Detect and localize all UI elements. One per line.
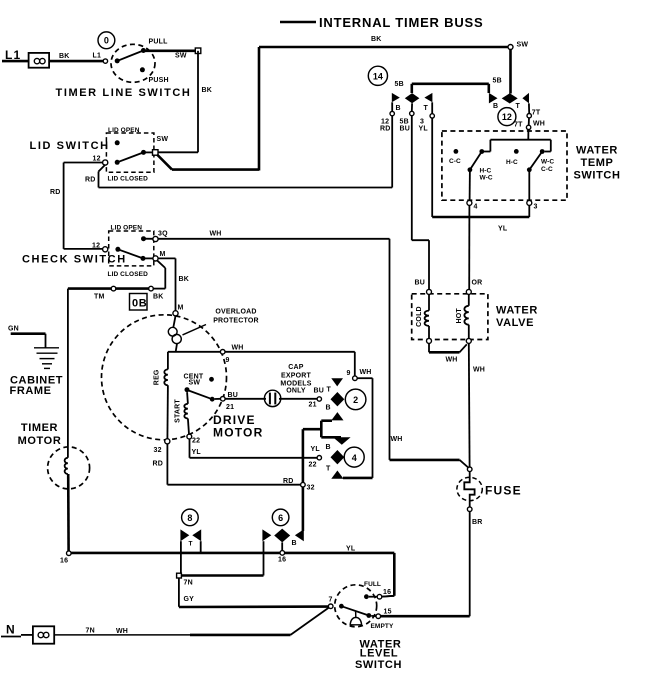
node 9 WH at timer contact 2 <box>343 369 373 478</box>
timer motor <box>18 422 90 551</box>
svg-text:3: 3 <box>534 204 538 211</box>
ground GN <box>8 326 59 369</box>
boxed label 0B <box>130 294 148 311</box>
svg-text:WATER: WATER <box>576 145 618 157</box>
wire RD motor 32 to node 32 <box>153 444 301 485</box>
svg-text:WH: WH <box>116 628 128 635</box>
svg-text:LID CLOSED: LID CLOSED <box>108 271 149 278</box>
svg-text:GN: GN <box>8 326 19 333</box>
svg-text:9: 9 <box>226 357 230 364</box>
svg-text:6: 6 <box>278 513 283 523</box>
svg-text:5B: 5B <box>395 81 404 88</box>
wire WH neutral to water level 7 <box>54 608 329 635</box>
svg-text:SW: SW <box>517 42 529 49</box>
svg-text:16: 16 <box>278 557 286 564</box>
svg-text:15: 15 <box>384 609 392 616</box>
svg-text:12: 12 <box>92 243 100 250</box>
timer contact 2 <box>309 378 366 420</box>
timer contact 4 <box>309 437 365 478</box>
node 32 <box>301 482 315 531</box>
label cabinet frame <box>10 375 64 397</box>
svg-text:7T: 7T <box>532 110 541 117</box>
wire timer motor branch <box>67 289 69 458</box>
svg-text:GY: GY <box>184 596 195 603</box>
wire WH check switch 3Q to fuse <box>158 231 468 468</box>
svg-text:WH: WH <box>446 357 458 364</box>
svg-text:B: B <box>493 103 498 110</box>
svg-text:WH: WH <box>210 231 222 238</box>
svg-text:14: 14 <box>373 71 383 81</box>
svg-text:WATER: WATER <box>496 305 538 317</box>
svg-text:21: 21 <box>309 402 317 409</box>
timer contact group 12 <box>489 84 545 130</box>
svg-text:START: START <box>175 399 182 423</box>
terminal 22 drive motor <box>187 434 201 456</box>
svg-text:B: B <box>292 540 297 547</box>
svg-text:OR: OR <box>472 280 483 287</box>
svg-text:9: 9 <box>347 370 351 377</box>
svg-text:EXPORT: EXPORT <box>281 373 312 380</box>
wire lid switch SW to timer buss <box>157 47 259 171</box>
svg-text:INTERNAL TIMER BUSS: INTERNAL TIMER BUSS <box>319 15 483 30</box>
svg-text:RD: RD <box>153 461 164 468</box>
svg-text:7: 7 <box>329 597 333 604</box>
REG winding <box>154 352 168 439</box>
svg-text:YL: YL <box>419 126 429 133</box>
svg-text:PUSH: PUSH <box>149 77 169 84</box>
svg-text:M: M <box>178 305 184 312</box>
svg-text:COLD: COLD <box>416 306 423 327</box>
node M drive motor <box>173 305 184 316</box>
svg-text:PULL: PULL <box>149 39 169 46</box>
svg-text:WH: WH <box>533 120 545 127</box>
wire WH motor 9 line <box>168 345 355 376</box>
svg-text:7N: 7N <box>86 628 95 635</box>
timer contact group 14 <box>380 84 434 133</box>
svg-text:L1: L1 <box>93 53 102 60</box>
svg-text:WH: WH <box>473 367 485 374</box>
svg-text:SW: SW <box>157 136 169 143</box>
svg-text:N: N <box>6 623 16 637</box>
svg-text:21: 21 <box>226 404 234 411</box>
svg-text:22: 22 <box>192 438 200 445</box>
svg-text:5B: 5B <box>493 78 502 85</box>
svg-text:RD: RD <box>380 126 391 133</box>
svg-text:W-C: W-C <box>541 159 554 166</box>
svg-text:LEVEL: LEVEL <box>360 647 398 659</box>
svg-text:OVERLOAD: OVERLOAD <box>215 309 256 316</box>
centrifugal switch <box>184 374 221 402</box>
svg-text:4: 4 <box>352 453 357 463</box>
svg-text:CHECK SWITCH: CHECK SWITCH <box>22 254 127 266</box>
svg-text:32: 32 <box>154 447 162 454</box>
wire TM line <box>68 286 164 300</box>
terminal 16 left <box>60 551 71 565</box>
svg-text:PROTECTOR: PROTECTOR <box>213 318 259 325</box>
svg-text:2: 2 <box>353 395 358 405</box>
svg-text:SW: SW <box>189 380 201 387</box>
START winding <box>175 392 190 434</box>
wire bracket contacts 2B 4B to node 32 <box>303 421 341 483</box>
svg-text:BK: BK <box>371 36 382 43</box>
capacitor cap export models only <box>225 364 317 407</box>
svg-text:3: 3 <box>420 119 424 126</box>
svg-text:32: 32 <box>307 485 315 492</box>
timer line switch <box>103 39 201 85</box>
svg-text:TIMER: TIMER <box>21 422 58 434</box>
svg-text:LID OPEN: LID OPEN <box>111 225 143 232</box>
svg-text:LID OPEN: LID OPEN <box>108 127 140 134</box>
svg-text:WH: WH <box>391 436 403 443</box>
svg-text:16: 16 <box>383 589 391 596</box>
wire YL water level 16 riser <box>382 595 395 598</box>
svg-text:YL: YL <box>498 226 508 233</box>
drive motor dashed circle <box>102 315 227 440</box>
svg-text:4: 4 <box>474 204 478 211</box>
wire check switch M to overload M <box>158 258 189 310</box>
terminal 7N <box>177 573 264 586</box>
svg-text:T: T <box>326 466 331 473</box>
svg-text:TEMP: TEMP <box>581 157 614 169</box>
label water valve <box>496 305 538 329</box>
svg-text:WH: WH <box>360 369 372 376</box>
svg-text:B: B <box>326 444 331 451</box>
svg-text:8: 8 <box>187 513 192 523</box>
label water temp switch <box>574 145 621 182</box>
timer cam 14 <box>368 66 387 85</box>
svg-text:C-C: C-C <box>449 158 461 165</box>
wire water temp 4 to water valve OR <box>415 205 483 289</box>
svg-text:T: T <box>327 387 332 394</box>
svg-text:B: B <box>396 105 401 112</box>
svg-text:0: 0 <box>104 36 109 46</box>
svg-text:BR: BR <box>472 519 483 526</box>
wire 5B BU to water valve <box>412 116 429 290</box>
svg-text:REG: REG <box>154 369 161 385</box>
wire main buss line 16 <box>71 546 394 597</box>
svg-text:LID CLOSED: LID CLOSED <box>108 176 149 183</box>
wire RD lid switch 12 to timer contact 12 <box>85 116 392 188</box>
svg-text:C-C: C-C <box>541 166 553 173</box>
svg-text:FRAME: FRAME <box>10 385 52 397</box>
terminal 32 drive motor <box>154 439 170 454</box>
wire GY <box>179 578 329 607</box>
svg-text:12: 12 <box>93 156 101 163</box>
svg-text:0B: 0B <box>132 298 147 310</box>
water level switch <box>328 581 394 630</box>
fuse <box>457 467 522 512</box>
node SW <box>508 42 528 50</box>
connector N <box>1 623 54 644</box>
timer cam 12 <box>498 108 516 126</box>
svg-text:TM: TM <box>94 294 105 301</box>
svg-text:WH: WH <box>232 345 244 352</box>
wire 5B buss <box>395 78 502 89</box>
svg-text:RD: RD <box>283 478 294 485</box>
wire WH water valve to fuse <box>429 343 485 467</box>
timer cam 0 <box>98 32 115 49</box>
svg-text:B: B <box>326 405 331 412</box>
wire BK timer line switch to lid switch <box>158 51 212 153</box>
check switch <box>92 225 168 279</box>
svg-text:7T: 7T <box>514 122 523 129</box>
svg-text:HOT: HOT <box>456 308 463 324</box>
wire 3 YL to water temp switch <box>432 118 529 232</box>
label drive motor <box>213 413 263 440</box>
label water level switch <box>355 639 402 671</box>
timer cam 6 <box>262 509 303 575</box>
legend internal timer buss <box>280 15 483 30</box>
connector L1 <box>2 48 49 68</box>
svg-text:BU: BU <box>400 126 411 133</box>
svg-text:BK: BK <box>202 87 213 94</box>
svg-text:RD: RD <box>50 189 61 196</box>
svg-text:YL: YL <box>311 446 321 453</box>
svg-text:FUSE: FUSE <box>485 483 522 497</box>
terminal 21 drive motor <box>221 392 239 411</box>
svg-text:BU: BU <box>415 280 426 287</box>
water valve <box>412 289 488 343</box>
svg-text:FULL: FULL <box>364 581 381 588</box>
svg-text:7N: 7N <box>184 580 193 587</box>
svg-text:SWITCH: SWITCH <box>355 659 402 671</box>
svg-text:ONLY: ONLY <box>286 387 306 394</box>
svg-text:YL: YL <box>192 449 202 456</box>
svg-text:T: T <box>189 541 193 548</box>
wire BK L1 to timer line switch <box>49 53 103 62</box>
wire check switch M to BK terminal <box>153 260 165 288</box>
wire SW to timer contact 12 <box>509 50 512 94</box>
svg-text:3Q: 3Q <box>158 231 168 238</box>
svg-text:22: 22 <box>309 462 317 469</box>
svg-text:12: 12 <box>381 119 389 126</box>
svg-text:RD: RD <box>85 177 96 184</box>
svg-text:H-C: H-C <box>480 168 492 175</box>
svg-text:MOTOR: MOTOR <box>213 426 263 440</box>
wire BR fuse to water level 15 <box>381 512 483 617</box>
svg-text:MOTOR: MOTOR <box>18 435 62 447</box>
svg-text:BK: BK <box>153 294 164 301</box>
svg-text:12: 12 <box>502 112 512 122</box>
svg-text:VALVE: VALVE <box>496 317 534 329</box>
svg-text:H-C: H-C <box>506 159 518 166</box>
wire YL motor 22 to contact 4 <box>190 439 318 458</box>
svg-text:SW: SW <box>175 53 187 60</box>
svg-text:W-C: W-C <box>480 175 493 182</box>
svg-text:M: M <box>160 251 166 258</box>
svg-text:T: T <box>516 103 521 110</box>
svg-text:LID SWITCH: LID SWITCH <box>30 140 110 152</box>
svg-text:EMPTY: EMPTY <box>371 623 394 630</box>
svg-text:BK: BK <box>179 276 190 283</box>
timer cam 8 <box>180 509 201 575</box>
overload protector <box>168 309 259 352</box>
wire RD lid switch 12 to check switch 12 <box>50 163 103 249</box>
wire BK internal timer buss <box>259 36 511 47</box>
svg-text:YL: YL <box>346 546 356 553</box>
lid switch <box>93 127 169 183</box>
svg-text:16: 16 <box>60 558 68 565</box>
svg-text:BK: BK <box>59 53 70 60</box>
svg-text:T: T <box>424 105 429 112</box>
svg-text:SWITCH: SWITCH <box>574 170 621 182</box>
water temp switch <box>442 130 567 211</box>
svg-text:TIMER LINE SWITCH: TIMER LINE SWITCH <box>56 87 192 99</box>
svg-text:5B: 5B <box>400 119 409 126</box>
svg-text:CAP: CAP <box>288 364 304 371</box>
svg-text:BU: BU <box>314 388 325 395</box>
